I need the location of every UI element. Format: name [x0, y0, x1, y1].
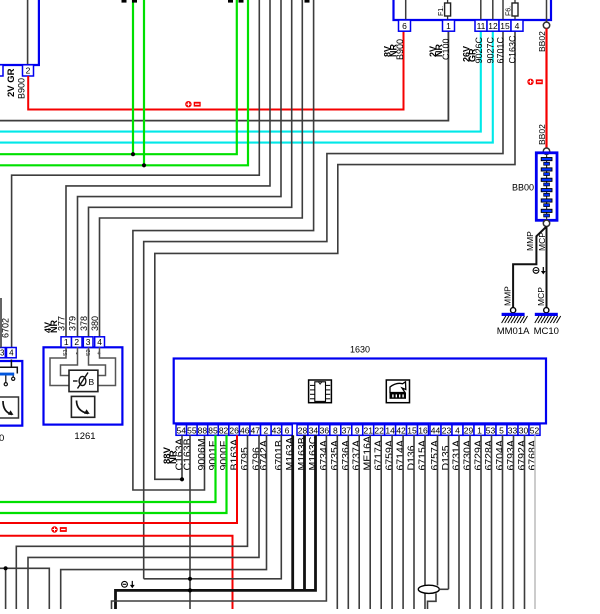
svg-text:BB00: BB00: [512, 183, 534, 193]
svg-text:1630: 1630: [350, 345, 370, 355]
svg-text:F6.: F6.: [505, 6, 512, 16]
wire 6795: [16, 435, 247, 609]
svg-text:B: B: [89, 377, 95, 387]
svg-text:6715A: 6715A: [417, 440, 429, 470]
svg-text:4: 4: [515, 21, 520, 31]
top pin marks: [122, 0, 127, 3]
svg-text:C163B: C163B: [182, 438, 194, 470]
svg-text:B900: B900: [395, 39, 405, 60]
wire 9000F green: [0, 435, 227, 513]
stub pin11: [480, 0, 482, 20]
svg-text:C100: C100: [441, 38, 451, 60]
wire M163B thick: [303, 435, 306, 590]
svg-text:42: 42: [396, 425, 406, 435]
svg-text:8: 8: [333, 425, 338, 435]
svg-text:377: 377: [57, 316, 67, 331]
svg-text:85: 85: [208, 425, 218, 435]
straight wires group B: [336, 435, 338, 609]
svg-text:378: 378: [79, 316, 89, 331]
pin 9 of 1630 (6737A): [352, 425, 363, 436]
svg-text:2: 2: [74, 337, 79, 347]
pin 55 of 1630 (C163B): [187, 425, 198, 436]
svg-text:2: 2: [26, 66, 31, 76]
component left (cut): [0, 361, 22, 426]
wire C163B: [189, 435, 191, 609]
svg-text:2V GR: 2V GR: [6, 68, 17, 97]
svg-text:6795: 6795: [239, 447, 251, 471]
wire D135 (pin 23): [448, 435, 450, 589]
pin 6 of fuse box: [399, 20, 411, 31]
pin 21 of 1630 (ME16A): [363, 425, 374, 436]
wire BB02 red: [545, 29, 547, 149]
internal bracket pin1: [50, 347, 69, 385]
svg-text:2: 2: [263, 425, 268, 435]
wire M163A thick: [291, 435, 294, 590]
svg-text:1: 1: [64, 337, 69, 347]
sensor contacts: [12, 376, 14, 378]
svg-text:5: 5: [499, 425, 504, 435]
pin 82 of 1630 (9000F): [218, 425, 229, 436]
fuse F6: [514, 0, 516, 20]
svg-text:4: 4: [97, 337, 102, 347]
wire C100: [0, 31, 448, 120]
internal bracket pin2: [61, 347, 78, 375]
wire green 1 branch: [132, 0, 134, 154]
wire 6796: [28, 435, 259, 609]
curve icon box left comp: [0, 397, 19, 418]
connector circle bottom of BB00: [543, 220, 549, 226]
wire 9026C cyan: [0, 31, 481, 131]
svg-text:53: 53: [486, 425, 496, 435]
sensor bar inside: [0, 373, 14, 376]
wire green 2 horizontal: [0, 0, 248, 165]
svg-text:88: 88: [198, 425, 208, 435]
ground indicator bottom: [122, 581, 128, 587]
junction green2: [142, 163, 146, 167]
svg-text:21: 21: [363, 425, 373, 435]
svg-text:26: 26: [229, 425, 239, 435]
svg-text:29: 29: [464, 425, 474, 435]
wire 6768A light: [534, 435, 536, 609]
wire 6701B joins ground bus: [144, 435, 282, 579]
wire green 1 horizontal: [0, 0, 237, 154]
svg-text:22: 22: [374, 425, 384, 435]
svg-text:28: 28: [298, 425, 308, 435]
pin 36 of 1630 (6734A): [319, 425, 330, 436]
internal bracket pin3: [89, 347, 106, 375]
svg-text:12: 12: [488, 21, 498, 31]
battery symbol right: [527, 79, 533, 85]
wire 6701C: [144, 31, 503, 578]
stub pin15: [502, 0, 504, 20]
wire 377: [66, 0, 270, 338]
wire MCP: [546, 227, 548, 309]
svg-text:4: 4: [9, 349, 14, 358]
pin 3 of 1261: [83, 337, 93, 348]
svg-text:C163C: C163C: [507, 35, 517, 64]
pin 46 of 1630 (6795): [239, 425, 250, 436]
pin 2 of 1630 (6742A): [261, 425, 272, 436]
svg-text:33: 33: [508, 425, 518, 435]
svg-text:54: 54: [177, 425, 187, 435]
pin 15 of fuse box: [499, 20, 511, 31]
junction green1: [131, 152, 135, 156]
wire M163C thick: [116, 435, 316, 609]
splice stub to 23: [439, 588, 448, 590]
pin 37 of 1630 (6736A): [341, 425, 352, 436]
pin 6 of 1630 (M163A): [282, 425, 293, 436]
svg-text:46: 46: [240, 425, 250, 435]
svg-text:BB02: BB02: [537, 124, 547, 145]
pin 4 of 1261: [95, 337, 105, 348]
svg-text:9026C: 9026C: [474, 36, 484, 63]
component 1261: [44, 347, 123, 424]
wire 379: [78, 0, 282, 338]
wire C163C pin4: [155, 31, 515, 479]
wire 6742A: [61, 435, 267, 609]
pin 2 of 1261: [72, 337, 83, 348]
pin 15 of 1630 (D136): [407, 425, 418, 436]
wire into pin3: [0, 298, 2, 348]
svg-text:37: 37: [342, 425, 352, 435]
pin 12 of fuse box: [487, 20, 499, 31]
wire 380: [100, 0, 303, 338]
stub BB02: [546, 0, 548, 22]
wire 378: [89, 0, 292, 338]
thermistor symbol: [73, 380, 78, 382]
pin 23 of 1630 (D135): [441, 425, 452, 436]
connector circle BB02: [543, 22, 549, 28]
wire to 9006M pin 88: [133, 0, 314, 490]
svg-text:3: 3: [86, 337, 91, 347]
svg-text:6: 6: [402, 21, 407, 31]
svg-text:1: 1: [477, 425, 482, 435]
pin 34 of 1630 (M163C): [308, 425, 319, 436]
pin 44 of 1630 (6757A): [430, 425, 441, 436]
pin 22 of 1630 (6717A): [374, 425, 385, 436]
pin 53 of 1630 (6728A): [485, 425, 496, 436]
svg-text:9027C: 9027C: [486, 36, 496, 63]
svg-text:1261: 1261: [74, 431, 95, 442]
svg-text:9: 9: [355, 425, 360, 435]
ground indicator MCP: [533, 268, 539, 274]
component 1630: [174, 359, 546, 424]
svg-text:4: 4: [455, 425, 460, 435]
pin 85 of 1630 (9001F): [208, 425, 219, 436]
wire green 2 branch: [143, 0, 145, 165]
pin 29 of 1630 (6730A): [463, 425, 474, 436]
pin 8 of 1630 (6735A): [330, 425, 341, 436]
svg-text:14: 14: [385, 425, 395, 435]
wire 6734A: [112, 435, 327, 609]
wire 6757A with splice: [437, 435, 439, 585]
horn icon: [386, 380, 409, 403]
connector circle top of BB00: [543, 148, 549, 154]
battery symbol on B900 wire: [185, 101, 191, 107]
pin 4 of fuse box: [511, 20, 523, 31]
curve icon box 1261: [71, 396, 94, 417]
svg-text:11: 11: [477, 21, 486, 31]
svg-text:6702: 6702: [1, 318, 11, 338]
svg-text:MCP: MCP: [536, 287, 546, 306]
battery symbol bottom: [51, 526, 57, 532]
pin 14 of 1630 (6759A): [385, 425, 396, 436]
pin 16 of 1630 (6715A): [418, 425, 429, 436]
svg-text:3: 3: [0, 349, 5, 358]
ground MC10: [544, 308, 549, 313]
svg-text:MM01A: MM01A: [497, 326, 530, 337]
pin 30 of 1630 (6792A): [518, 425, 529, 436]
fuse box top-right (cut): [394, 0, 552, 20]
wire 9001F green: [0, 435, 216, 502]
pin 43 of 1630 (6701B): [271, 425, 282, 436]
svg-text:82: 82: [219, 425, 229, 435]
svg-text:44: 44: [431, 425, 441, 435]
wire battery feed red: [0, 536, 233, 609]
pin 28 of 1630 (M163B): [297, 425, 308, 436]
pin 54 of 1630 (C163A): [176, 425, 187, 436]
pin 4 of 1630 (6731A): [452, 425, 463, 436]
svg-text:47: 47: [251, 425, 261, 435]
pin stub at left edge: [0, 65, 3, 76]
ground MM01A: [510, 308, 515, 313]
wire C163A: [181, 435, 183, 479]
pin 11 of fuse box: [475, 20, 487, 31]
svg-text:379: 379: [68, 316, 78, 331]
svg-text:6768A: 6768A: [527, 440, 539, 470]
fuse F1: [447, 0, 449, 20]
pin 1 of 1630 (6729A): [474, 425, 485, 436]
straight wires group C: [458, 435, 460, 609]
pin 4 left comp: [7, 348, 17, 358]
svg-text:6701C: 6701C: [495, 36, 505, 63]
wire inside top-left box: [27, 0, 29, 64]
wire B163A red: [0, 435, 237, 523]
wire stub pin6: [405, 0, 407, 20]
IC icon: [309, 380, 332, 403]
svg-text:6701B: 6701B: [273, 440, 285, 470]
pin 52 of 1630 (6768A): [529, 425, 540, 436]
svg-text:1: 1: [446, 21, 451, 31]
battery BB00: [546, 154, 548, 220]
pin 42 of 1630 (6714A): [396, 425, 407, 436]
svg-text:6: 6: [285, 425, 290, 435]
svg-text:MCP: MCP: [537, 232, 547, 251]
svg-text:F1.: F1.: [438, 6, 445, 16]
svg-text:MC10: MC10: [534, 326, 559, 337]
svg-text:0: 0: [0, 433, 4, 444]
pin 26 of 1630 (B163A): [229, 425, 240, 436]
svg-text:380: 380: [90, 316, 100, 331]
wire B900 red: [28, 31, 403, 109]
pin 1 of 1261: [61, 337, 72, 348]
svg-text:55: 55: [187, 425, 197, 435]
svg-text:43: 43: [272, 425, 282, 435]
svg-text:16: 16: [418, 425, 428, 435]
svg-text:34: 34: [309, 425, 319, 435]
pin 3 left comp: [0, 348, 5, 358]
svg-text:15: 15: [407, 425, 417, 435]
internal bracket pin4: [98, 347, 116, 385]
svg-text:15: 15: [500, 21, 510, 31]
svg-text:23: 23: [442, 425, 452, 435]
wire from left edge with branch: [0, 568, 49, 609]
wire 9027C cyan: [0, 31, 493, 142]
wire MMP: [513, 227, 546, 309]
svg-text:M163A: M163A: [284, 437, 296, 470]
thermistor box: [69, 370, 98, 391]
pin 5 of 1630 (6704A): [496, 425, 507, 436]
svg-text:52: 52: [530, 425, 540, 435]
svg-text:B900: B900: [17, 78, 27, 99]
pin 33 of 1630 (6793A): [507, 425, 518, 436]
svg-text:36: 36: [320, 425, 330, 435]
svg-text:MMP: MMP: [503, 286, 513, 306]
pin 2 (B900): [23, 65, 34, 76]
connector box top-left (cut): [0, 0, 39, 65]
pin 88 of 1630 (9006M): [197, 425, 208, 436]
svg-text:MMP: MMP: [525, 231, 535, 251]
stub pin12: [492, 0, 494, 20]
pin 47 of 1630 (6796): [250, 425, 261, 436]
pin 1 of fuse box: [443, 20, 455, 31]
svg-text:30: 30: [519, 425, 529, 435]
wire to left pin4 (6702): [12, 0, 260, 348]
sensor bracket inside: [0, 367, 17, 373]
